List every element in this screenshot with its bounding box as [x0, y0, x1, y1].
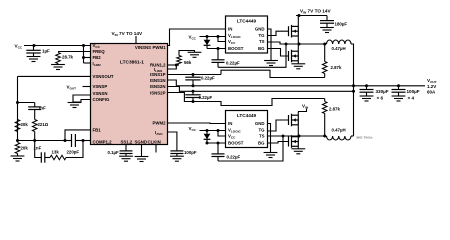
wire PWM1 to U2 IN: [168, 29, 226, 46]
svg-text:1.2V: 1.2V: [427, 84, 436, 89]
node VCC/C-1uF junction: [33, 44, 36, 47]
wire CONFIG to ground: [73, 100, 91, 103]
wire VCC2 to VLOGIC: [200, 130, 226, 132]
wire diode to BOOST: [207, 48, 226, 50]
node ISNS2N cap junction: [192, 90, 195, 93]
svg-text:LTC4449: LTC4449: [237, 19, 257, 24]
svg-text:220pF: 220pF: [67, 150, 80, 155]
svg-text:TS: TS: [259, 134, 265, 139]
wire PWM2 to U3 IN: [168, 122, 226, 125]
svg-text:20k: 20k: [21, 146, 29, 151]
svg-text:0.47µH: 0.47µH: [332, 46, 346, 51]
wire ISNS1P: [168, 74, 222, 76]
U1 bottom pin labels: [121, 139, 161, 144]
svg-text:BOOST: BOOST: [228, 46, 244, 51]
wire FREQ: [58, 51, 91, 53]
svg-text:0.47µH: 0.47µH: [332, 127, 346, 132]
svg-text:IN: IN: [228, 121, 232, 126]
svg-text:1nF: 1nF: [38, 106, 46, 111]
svg-text:0.22µF: 0.22µF: [227, 155, 241, 160]
svg-text:TS: TS: [259, 39, 265, 44]
svg-text:TG: TG: [258, 128, 265, 133]
wire Q1 source to SW: [297, 36, 299, 44]
svg-text:ISNS2N: ISNS2N: [150, 84, 166, 89]
op-amp U3 LTC4449 driver bottom: [226, 111, 268, 148]
svg-text:VSNSOUT: VSNSOUT: [93, 74, 114, 79]
node boost cap junction: [217, 47, 220, 50]
wire VSNSN to ground: [73, 95, 91, 102]
wire VIN2 stub: [298, 109, 307, 112]
ground for Q2 source: [291, 64, 305, 69]
wire Q4 source to ground: [297, 146, 299, 149]
svg-text:CLKIN: CLKIN: [148, 139, 161, 144]
wire IAVG to cap: [168, 132, 177, 151]
wire FB1 riser: [65, 130, 91, 141]
capacitor 100pF IAVG: [170, 151, 183, 154]
node VIN/drain junction: [298, 14, 301, 17]
capacitor 1nF feedforward: [34, 103, 36, 107]
wire RUN1,2: [168, 64, 180, 66]
ground for 28.7k: [57, 64, 59, 65]
node sense2 cap bottom: [192, 100, 195, 103]
transistor Q2 bottom FET phase1: [289, 50, 299, 63]
node FB2 tie junction: [82, 56, 85, 59]
node VCC2 pin junction: [217, 129, 220, 132]
wire Q4 drain to SW2: [297, 135, 299, 138]
ground for 56k: [188, 52, 202, 57]
svg-text:60A: 60A: [427, 89, 436, 94]
wire diode2 to BOOST: [207, 142, 226, 144]
inductor L2 0.47uH phase2: [327, 136, 352, 140]
node boost2 to TS join: [282, 135, 285, 138]
node L1/VOUT junction: [352, 84, 355, 87]
ground for 100uF: [392, 96, 406, 101]
wire TG1: [268, 31, 289, 35]
U1 left pin labels: [93, 43, 114, 144]
wire L2 to VOUT riser: [351, 135, 354, 137]
svg-text:3861 TA01b: 3861 TA01b: [356, 136, 373, 140]
node divider top junction: [16, 101, 19, 104]
resistor 56k RUN: [177, 56, 182, 66]
wire BG2: [268, 142, 289, 144]
svg-text:180µF: 180µF: [335, 21, 348, 26]
wire Q1 drain: [297, 16, 299, 27]
resistor 2.87k phase1 sense: [324, 44, 326, 62]
svg-text:330µF: 330µF: [376, 89, 389, 94]
capacitor 0.22uF boost2: [217, 143, 219, 154]
wire comp branch return: [66, 141, 83, 158]
svg-text:221Ω: 221Ω: [38, 122, 49, 127]
wire ISNS1P bus to phase1: [221, 70, 325, 77]
inductor L1 0.47uH phase1: [327, 40, 352, 44]
svg-text:VINSNS: VINSNS: [135, 45, 151, 50]
svg-text:1µF: 1µF: [42, 49, 50, 54]
U2 pin labels: [228, 27, 265, 52]
ground for 330uF: [360, 96, 374, 101]
wire feedback column vertical: [17, 76, 19, 140]
wire ISNS2N bus: [168, 87, 354, 92]
transistor Q1 top FET phase1: [289, 25, 299, 38]
svg-text:CONFIG: CONFIG: [93, 97, 111, 102]
transistor Q4 bottom FET phase2: [289, 135, 299, 148]
capacitor 330uF x6 output: [366, 86, 368, 90]
wire Q3 source to SW2: [297, 125, 299, 136]
wire VCC to FB2/ILIM2 tie: [82, 44, 85, 47]
wire TS1: [268, 42, 300, 44]
ground for 180uF: [320, 28, 334, 33]
resistor 28.7k FREQ: [56, 53, 61, 64]
net label VOUT 1.2V 60A: [427, 78, 437, 94]
wire VCC2 pin branch: [218, 131, 226, 137]
svg-text:VSNSN: VSNSN: [93, 91, 108, 96]
ground for 100pF: [170, 156, 184, 161]
svg-text:× 4: × 4: [408, 95, 415, 100]
wire VSNSP stub: [83, 86, 91, 88]
wire U3 GND to ground: [268, 124, 271, 153]
capacitor 220pF comp: [72, 134, 76, 147]
svg-text:0.22µF: 0.22µF: [201, 75, 215, 80]
node sense cap to VOUT rail: [192, 84, 195, 87]
U3 pin labels: [228, 121, 265, 146]
wire VCC pin branch: [218, 37, 226, 42]
svg-text:0.1µF: 0.1µF: [108, 150, 120, 155]
svg-text:SGND: SGND: [135, 139, 148, 144]
wire VSNSOUT sense line: [18, 75, 91, 77]
node FB/divider junction A: [16, 139, 19, 142]
wire FB node: [18, 140, 66, 142]
node SW2/sense junction: [323, 135, 326, 138]
svg-text:0.22µF: 0.22µF: [226, 60, 240, 65]
wire TG2: [268, 120, 289, 131]
svg-text:FB2: FB2: [93, 55, 102, 60]
wire BG1: [268, 49, 289, 57]
node diode2 anode junction: [206, 129, 209, 132]
svg-text:2.87k: 2.87k: [329, 107, 340, 112]
svg-text:100µF: 100µF: [407, 89, 420, 94]
svg-text:COMP1,2: COMP1,2: [93, 139, 113, 144]
resistor 20k lower: [15, 143, 20, 154]
wire L1 to VOUT rail: [351, 44, 354, 136]
node VCC pin junction: [217, 35, 220, 38]
wire Q2 drain to SW: [297, 44, 299, 51]
wire Q2 source to ground: [297, 61, 299, 64]
resistor 20k upper: [15, 120, 20, 132]
wire boost2 cap to switch node: [218, 136, 283, 161]
transistor Q3 top FET phase2: [289, 114, 299, 127]
U1 right/top pin labels: [135, 45, 166, 136]
node ISNS1P cap junction: [192, 73, 195, 76]
svg-text:RUN1,2: RUN1,2: [150, 63, 166, 68]
svg-text:0.22µF: 0.22µF: [199, 95, 213, 100]
svg-text:ISNS1P: ISNS1P: [150, 72, 166, 77]
ground for 1uF: [27, 57, 41, 62]
svg-text:SS1,2: SS1,2: [121, 139, 133, 144]
wire VINSNS stub: [135, 36, 137, 44]
wire to feedforward branch: [18, 102, 35, 104]
node comp dot1: [64, 139, 67, 142]
capacitor 0.22uF phase2 sense: [185, 95, 200, 98]
wire boost cap to switch node: [218, 44, 286, 67]
svg-text:VSNSP: VSNSP: [93, 84, 108, 89]
node SW phase2: [298, 135, 301, 138]
svg-text:BG: BG: [258, 46, 265, 51]
svg-text:13k: 13k: [52, 149, 60, 154]
svg-text:× 6: × 6: [377, 95, 384, 100]
node diode anode junction: [206, 35, 209, 38]
svg-text:28.7k: 28.7k: [62, 55, 74, 60]
svg-text:ISNS1N: ISNS1N: [150, 78, 166, 83]
svg-text:2.87k: 2.87k: [331, 65, 342, 70]
svg-text:FB1: FB1: [93, 128, 102, 133]
wire VCC rail: [24, 45, 91, 47]
ground for SS cap: [119, 156, 133, 161]
wire comp lower branch: [35, 141, 42, 158]
wire SW to inductor: [299, 43, 327, 45]
node boost to TS join: [285, 43, 288, 46]
ground for U3 GND: [264, 153, 278, 158]
wire ISNS1N step: [168, 80, 177, 86]
wire CLKIN stub: [155, 145, 157, 153]
wire COMP into U1: [75, 140, 90, 142]
node 100uF junction: [397, 84, 400, 87]
svg-text:PWM1: PWM1: [152, 45, 166, 50]
diode boost driver2: [206, 131, 208, 144]
svg-text:GND: GND: [255, 27, 265, 32]
capacitor 0.1uF SS: [125, 145, 127, 151]
wire Q3 drain: [297, 112, 299, 116]
node SW phase1: [298, 43, 301, 46]
wire VIN rail phase1: [296, 15, 327, 17]
wire SW2 to inductor: [299, 135, 327, 137]
wire 56k to ground: [179, 51, 195, 56]
node boost2 cap junction: [217, 142, 220, 145]
svg-text:LTC3861-1: LTC3861-1: [120, 60, 144, 66]
svg-text:GND: GND: [255, 121, 265, 126]
wire TS2: [268, 135, 300, 137]
capacitor 100uF x4 output: [398, 86, 400, 90]
wire VOUT rail: [176, 85, 425, 87]
svg-text:BOOST: BOOST: [228, 141, 244, 146]
svg-text:20k: 20k: [21, 122, 29, 127]
node ISNS2N/vertical junction: [352, 90, 355, 93]
svg-text:PWM2: PWM2: [152, 121, 166, 126]
ground for 20k lower: [17, 154, 19, 157]
ground for VSNSN/CONFIG: [68, 103, 82, 108]
diode boost driver1: [206, 37, 208, 49]
svg-text:BG: BG: [258, 141, 265, 146]
capacitor 0.22uF phase1 sense: [185, 77, 200, 80]
svg-text:FREQ: FREQ: [93, 49, 106, 54]
svg-text:ISNS2P: ISNS2P: [150, 90, 166, 95]
ground for U2 GND: [264, 61, 278, 66]
node 330uF junction: [365, 84, 368, 87]
wire U2 GND to ground: [268, 29, 272, 61]
capacitor 180uF input: [326, 16, 328, 21]
capacitor 1uF VCC bypass: [33, 46, 35, 51]
resistor 2.87k phase2 sense: [324, 114, 326, 137]
ground for Q4 source: [291, 149, 305, 154]
op-amp U2 LTC4449 driver top: [226, 16, 268, 53]
svg-text:100pF: 100pF: [184, 150, 197, 155]
op-amp U1 LTC3861-1 controller block: [91, 44, 168, 145]
capacitor 0.22uF boost1: [217, 49, 219, 60]
resistor 13k comp: [45, 157, 50, 159]
wire ILIM1 tie: [168, 65, 177, 69]
ground SGND pin: [141, 145, 143, 157]
wire VCC to VLOGIC: [200, 36, 226, 38]
node comp dot2: [82, 139, 85, 142]
svg-text:1nF: 1nF: [34, 146, 42, 151]
resistor 221 Ohm: [32, 120, 37, 132]
svg-text:TG: TG: [258, 33, 265, 38]
wire ISNS2P bus to phase2: [168, 93, 325, 106]
svg-text:LTC4449: LTC4449: [237, 113, 257, 118]
node FB/221 junction B: [33, 139, 36, 142]
svg-text:56k: 56k: [184, 60, 192, 65]
node SW/sense junction: [323, 43, 326, 46]
capacitor 1nF comp: [41, 152, 45, 162]
svg-text:IN: IN: [228, 27, 232, 32]
